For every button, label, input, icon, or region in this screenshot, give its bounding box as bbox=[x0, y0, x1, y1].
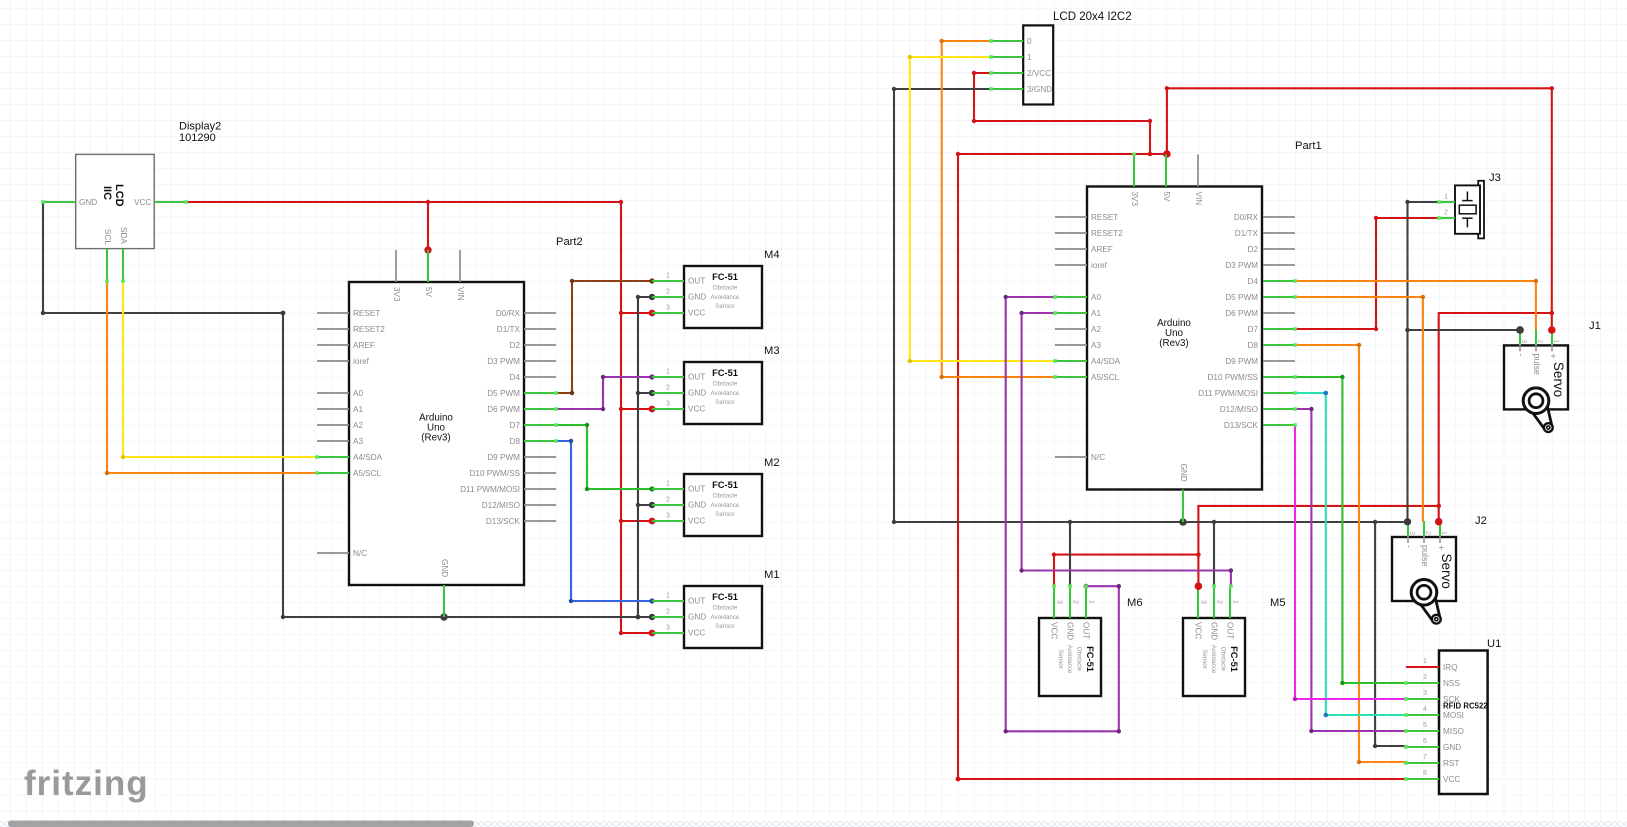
svg-text:3/GND: 3/GND bbox=[1027, 85, 1052, 94]
svg-text:M5: M5 bbox=[1270, 597, 1286, 609]
svg-text:RESET: RESET bbox=[1091, 213, 1118, 222]
svg-text:A4/SDA: A4/SDA bbox=[353, 453, 383, 462]
wire: orange D4 to J1 pulse bbox=[1295, 281, 1536, 329]
svg-text:D11 PWM/MOSI: D11 PWM/MOSI bbox=[460, 485, 520, 494]
wire: red 5V/VCC net (LCD VCC, 3V3, 5V, J1+, J2+, M5/M6 VCC, U1 VCC) bbox=[958, 73, 1552, 779]
svg-text:SCL: SCL bbox=[103, 229, 112, 245]
junction dots at servo pins bbox=[1516, 326, 1524, 334]
svg-text:6: 6 bbox=[1423, 738, 1427, 745]
svg-text:2: 2 bbox=[1423, 674, 1427, 681]
svg-text:VIN: VIN bbox=[456, 287, 465, 301]
svg-text:LCD 20x4 I2C2: LCD 20x4 I2C2 bbox=[1053, 11, 1132, 23]
svg-text:A2: A2 bbox=[1091, 325, 1101, 334]
junction red dots on 5V net bbox=[424, 200, 655, 637]
svg-text:GND: GND bbox=[440, 559, 449, 577]
svg-text:0: 0 bbox=[1027, 37, 1032, 46]
wire: black GND net (LCD GND, Arduino GND, M5/M6 GND, U1 GND, J3-1, J1-, J2-) bbox=[894, 89, 1520, 746]
svg-text:ioref: ioref bbox=[353, 357, 370, 366]
svg-text:SDA: SDA bbox=[119, 227, 128, 244]
svg-text:D8: D8 bbox=[510, 437, 521, 446]
pin labels bbox=[353, 287, 521, 577]
wire: orange SCL to A5/SCL bbox=[107, 281, 317, 473]
svg-text:AREF: AREF bbox=[353, 341, 375, 350]
svg-text:5V: 5V bbox=[424, 287, 433, 298]
wire: orange LCD pin0 to A5/SCL bbox=[942, 41, 1055, 377]
svg-text:D10 PWM/SS: D10 PWM/SS bbox=[469, 469, 520, 478]
center name bbox=[419, 413, 453, 444]
wire: brown D5 PWM to M4 OUT bbox=[556, 281, 652, 393]
green connected stubs bbox=[317, 250, 556, 617]
svg-text:D4: D4 bbox=[510, 373, 521, 382]
red wire overlay on IRQ stub bbox=[1406, 666, 1439, 668]
wire: yellow SDA to A4/SDA bbox=[123, 281, 317, 457]
svg-text:3V3: 3V3 bbox=[1130, 192, 1139, 207]
svg-text:D0/RX: D0/RX bbox=[496, 309, 521, 318]
svg-text:GND: GND bbox=[1443, 743, 1461, 752]
svg-text:D6 PWM: D6 PWM bbox=[487, 405, 520, 414]
svg-text:J2: J2 bbox=[1475, 515, 1487, 527]
svg-text:D7: D7 bbox=[1248, 325, 1259, 334]
svg-text:D1/TX: D1/TX bbox=[1235, 229, 1259, 238]
svg-text:D5 PWM: D5 PWM bbox=[1225, 293, 1258, 302]
svg-text:IRQ: IRQ bbox=[1443, 663, 1458, 672]
wire: violet D12 to U1 MISO bbox=[1295, 409, 1406, 731]
svg-text:RESET2: RESET2 bbox=[1091, 229, 1123, 238]
svg-text:RFID RC522: RFID RC522 bbox=[1443, 702, 1488, 711]
svg-text:LCD: LCD bbox=[113, 184, 125, 207]
wire: black GND net LCD GND / Arduino GND / M1-M4 GND bbox=[43, 202, 652, 617]
svg-text:MISO: MISO bbox=[1443, 727, 1464, 736]
svg-text:D13/SCK: D13/SCK bbox=[486, 517, 521, 526]
svg-text:RST: RST bbox=[1443, 759, 1459, 768]
svg-text:D9 PWM: D9 PWM bbox=[1225, 357, 1258, 366]
svg-text:A2: A2 bbox=[353, 421, 363, 430]
svg-text:D5 PWM: D5 PWM bbox=[487, 389, 520, 398]
svg-text:D13/SCK: D13/SCK bbox=[1224, 421, 1259, 430]
svg-text:D12/MISO: D12/MISO bbox=[1220, 405, 1258, 414]
svg-text:VIN: VIN bbox=[1194, 192, 1203, 206]
wire: yellow LCD pin1 to A4/SDA bbox=[910, 57, 1055, 361]
op: right Arduino Uno (Part1) bbox=[1053, 140, 1322, 522]
svg-text:3V3: 3V3 bbox=[392, 287, 401, 302]
wire: orange D8 to U1 RST bbox=[1295, 345, 1406, 762]
LCD 20x4 I2C display bbox=[989, 25, 1053, 104]
svg-text:M1: M1 bbox=[764, 569, 780, 581]
svg-text:1: 1 bbox=[1423, 658, 1427, 665]
svg-text:M2: M2 bbox=[764, 457, 780, 469]
wire: purple A0 to M6 OUT bbox=[1006, 297, 1119, 731]
svg-text:D0/RX: D0/RX bbox=[1234, 213, 1259, 222]
wire: purple D6 PWM to M3 OUT bbox=[556, 377, 652, 409]
wire: cyan D11 to U1 MOSI bbox=[1295, 393, 1406, 715]
svg-text:D9 PWM: D9 PWM bbox=[487, 453, 520, 462]
svg-text:M3: M3 bbox=[764, 345, 780, 357]
svg-text:A1: A1 bbox=[353, 405, 363, 414]
svg-text:5V: 5V bbox=[1162, 192, 1171, 203]
svg-text:D2: D2 bbox=[510, 341, 521, 350]
wire: purple A1 to M5 OUT bbox=[1022, 313, 1231, 586]
svg-text:2/VCC: 2/VCC bbox=[1027, 69, 1051, 78]
wire: green D7 to M2 OUT bbox=[556, 425, 652, 489]
svg-text:D10 PWM/SS: D10 PWM/SS bbox=[1207, 373, 1258, 382]
svg-text:N/C: N/C bbox=[353, 549, 367, 558]
wire: magenta D13 to U1 SCK bbox=[1295, 425, 1406, 699]
svg-text:A3: A3 bbox=[1091, 341, 1101, 350]
svg-text:N/C: N/C bbox=[1091, 453, 1105, 462]
svg-text:2: 2 bbox=[1444, 210, 1448, 217]
svg-text:M6: M6 bbox=[1127, 597, 1143, 609]
svg-text:Part1: Part1 bbox=[1295, 140, 1322, 152]
svg-text:GND: GND bbox=[1179, 464, 1188, 482]
svg-text:1: 1 bbox=[1027, 53, 1032, 62]
svg-text:3: 3 bbox=[1423, 690, 1427, 697]
left pin lines bbox=[317, 313, 349, 553]
svg-text:(Rev3): (Rev3) bbox=[1159, 338, 1188, 349]
wire: red D7 to piezo J3 pin2 bbox=[1295, 218, 1439, 329]
svg-text:J1: J1 bbox=[1589, 320, 1601, 332]
svg-text:A0: A0 bbox=[353, 389, 363, 398]
svg-text:4: 4 bbox=[1423, 706, 1427, 713]
svg-text:A0: A0 bbox=[1091, 293, 1101, 302]
svg-text:D1/TX: D1/TX bbox=[497, 325, 521, 334]
svg-text:D3 PWM: D3 PWM bbox=[487, 357, 520, 366]
svg-text:D3 PWM: D3 PWM bbox=[1225, 261, 1258, 270]
svg-text:D11 PWM/MOSI: D11 PWM/MOSI bbox=[1198, 389, 1258, 398]
LCD IIC display module (Display2) bbox=[41, 154, 188, 282]
svg-text:(Rev3): (Rev3) bbox=[421, 433, 450, 444]
svg-text:D7: D7 bbox=[510, 421, 521, 430]
canvas edge checker band bbox=[0, 821, 1627, 827]
top pin lines bbox=[395, 250, 397, 282]
svg-text:5: 5 bbox=[1423, 722, 1427, 729]
svg-text:D12/MISO: D12/MISO bbox=[482, 501, 520, 510]
green squares at M5/M6 stub tops bbox=[1052, 584, 1233, 588]
wire: red 5V net from LCD VCC to M1-M4 VCC rail bbox=[186, 202, 652, 633]
svg-text:A5/SCL: A5/SCL bbox=[353, 469, 382, 478]
svg-text:NSS: NSS bbox=[1443, 679, 1460, 688]
svg-text:MOSI: MOSI bbox=[1443, 711, 1464, 720]
svg-text:A3: A3 bbox=[353, 437, 363, 446]
horizontal scrollbar bbox=[8, 821, 474, 827]
wire: orange D5 to J2 pulse bbox=[1295, 297, 1423, 521]
svg-text:U1: U1 bbox=[1487, 638, 1501, 650]
svg-text:fritzing: fritzing bbox=[24, 764, 149, 803]
svg-text:A1: A1 bbox=[1091, 309, 1101, 318]
svg-text:8: 8 bbox=[1423, 770, 1427, 777]
svg-text:D6 PWM: D6 PWM bbox=[1225, 309, 1258, 318]
svg-text:IIC: IIC bbox=[101, 186, 113, 200]
svg-text:RESET: RESET bbox=[353, 309, 380, 318]
junction dark dots on GND net bbox=[41, 294, 655, 621]
svg-text:D8: D8 bbox=[1248, 341, 1259, 350]
svg-text:Part2: Part2 bbox=[556, 236, 583, 248]
svg-text:VCC: VCC bbox=[134, 198, 151, 207]
wire: green D10 to U1 NSS bbox=[1295, 377, 1406, 683]
svg-text:A4/SDA: A4/SDA bbox=[1091, 357, 1121, 366]
svg-text:D2: D2 bbox=[1248, 245, 1259, 254]
svg-text:A5/SCL: A5/SCL bbox=[1091, 373, 1120, 382]
svg-text:Display2: Display2 bbox=[179, 121, 221, 133]
wire: blue D8 to M1 OUT bbox=[556, 441, 652, 601]
op: left Arduino Uno (Part2) bbox=[315, 236, 583, 617]
svg-text:GND: GND bbox=[79, 198, 97, 207]
svg-text:7: 7 bbox=[1423, 754, 1427, 761]
right pin lines bbox=[524, 313, 556, 521]
svg-text:AREF: AREF bbox=[1091, 245, 1113, 254]
svg-text:RESET2: RESET2 bbox=[353, 325, 385, 334]
svg-text:M4: M4 bbox=[764, 249, 780, 261]
svg-text:D4: D4 bbox=[1248, 277, 1259, 286]
svg-text:101290: 101290 bbox=[179, 132, 216, 144]
svg-text:J3: J3 bbox=[1489, 172, 1501, 184]
svg-text:VCC: VCC bbox=[1443, 775, 1460, 784]
svg-text:1: 1 bbox=[1444, 194, 1448, 201]
svg-text:ioref: ioref bbox=[1091, 261, 1108, 270]
big junction dots over M5 VCC / stub joins bbox=[1195, 582, 1203, 590]
